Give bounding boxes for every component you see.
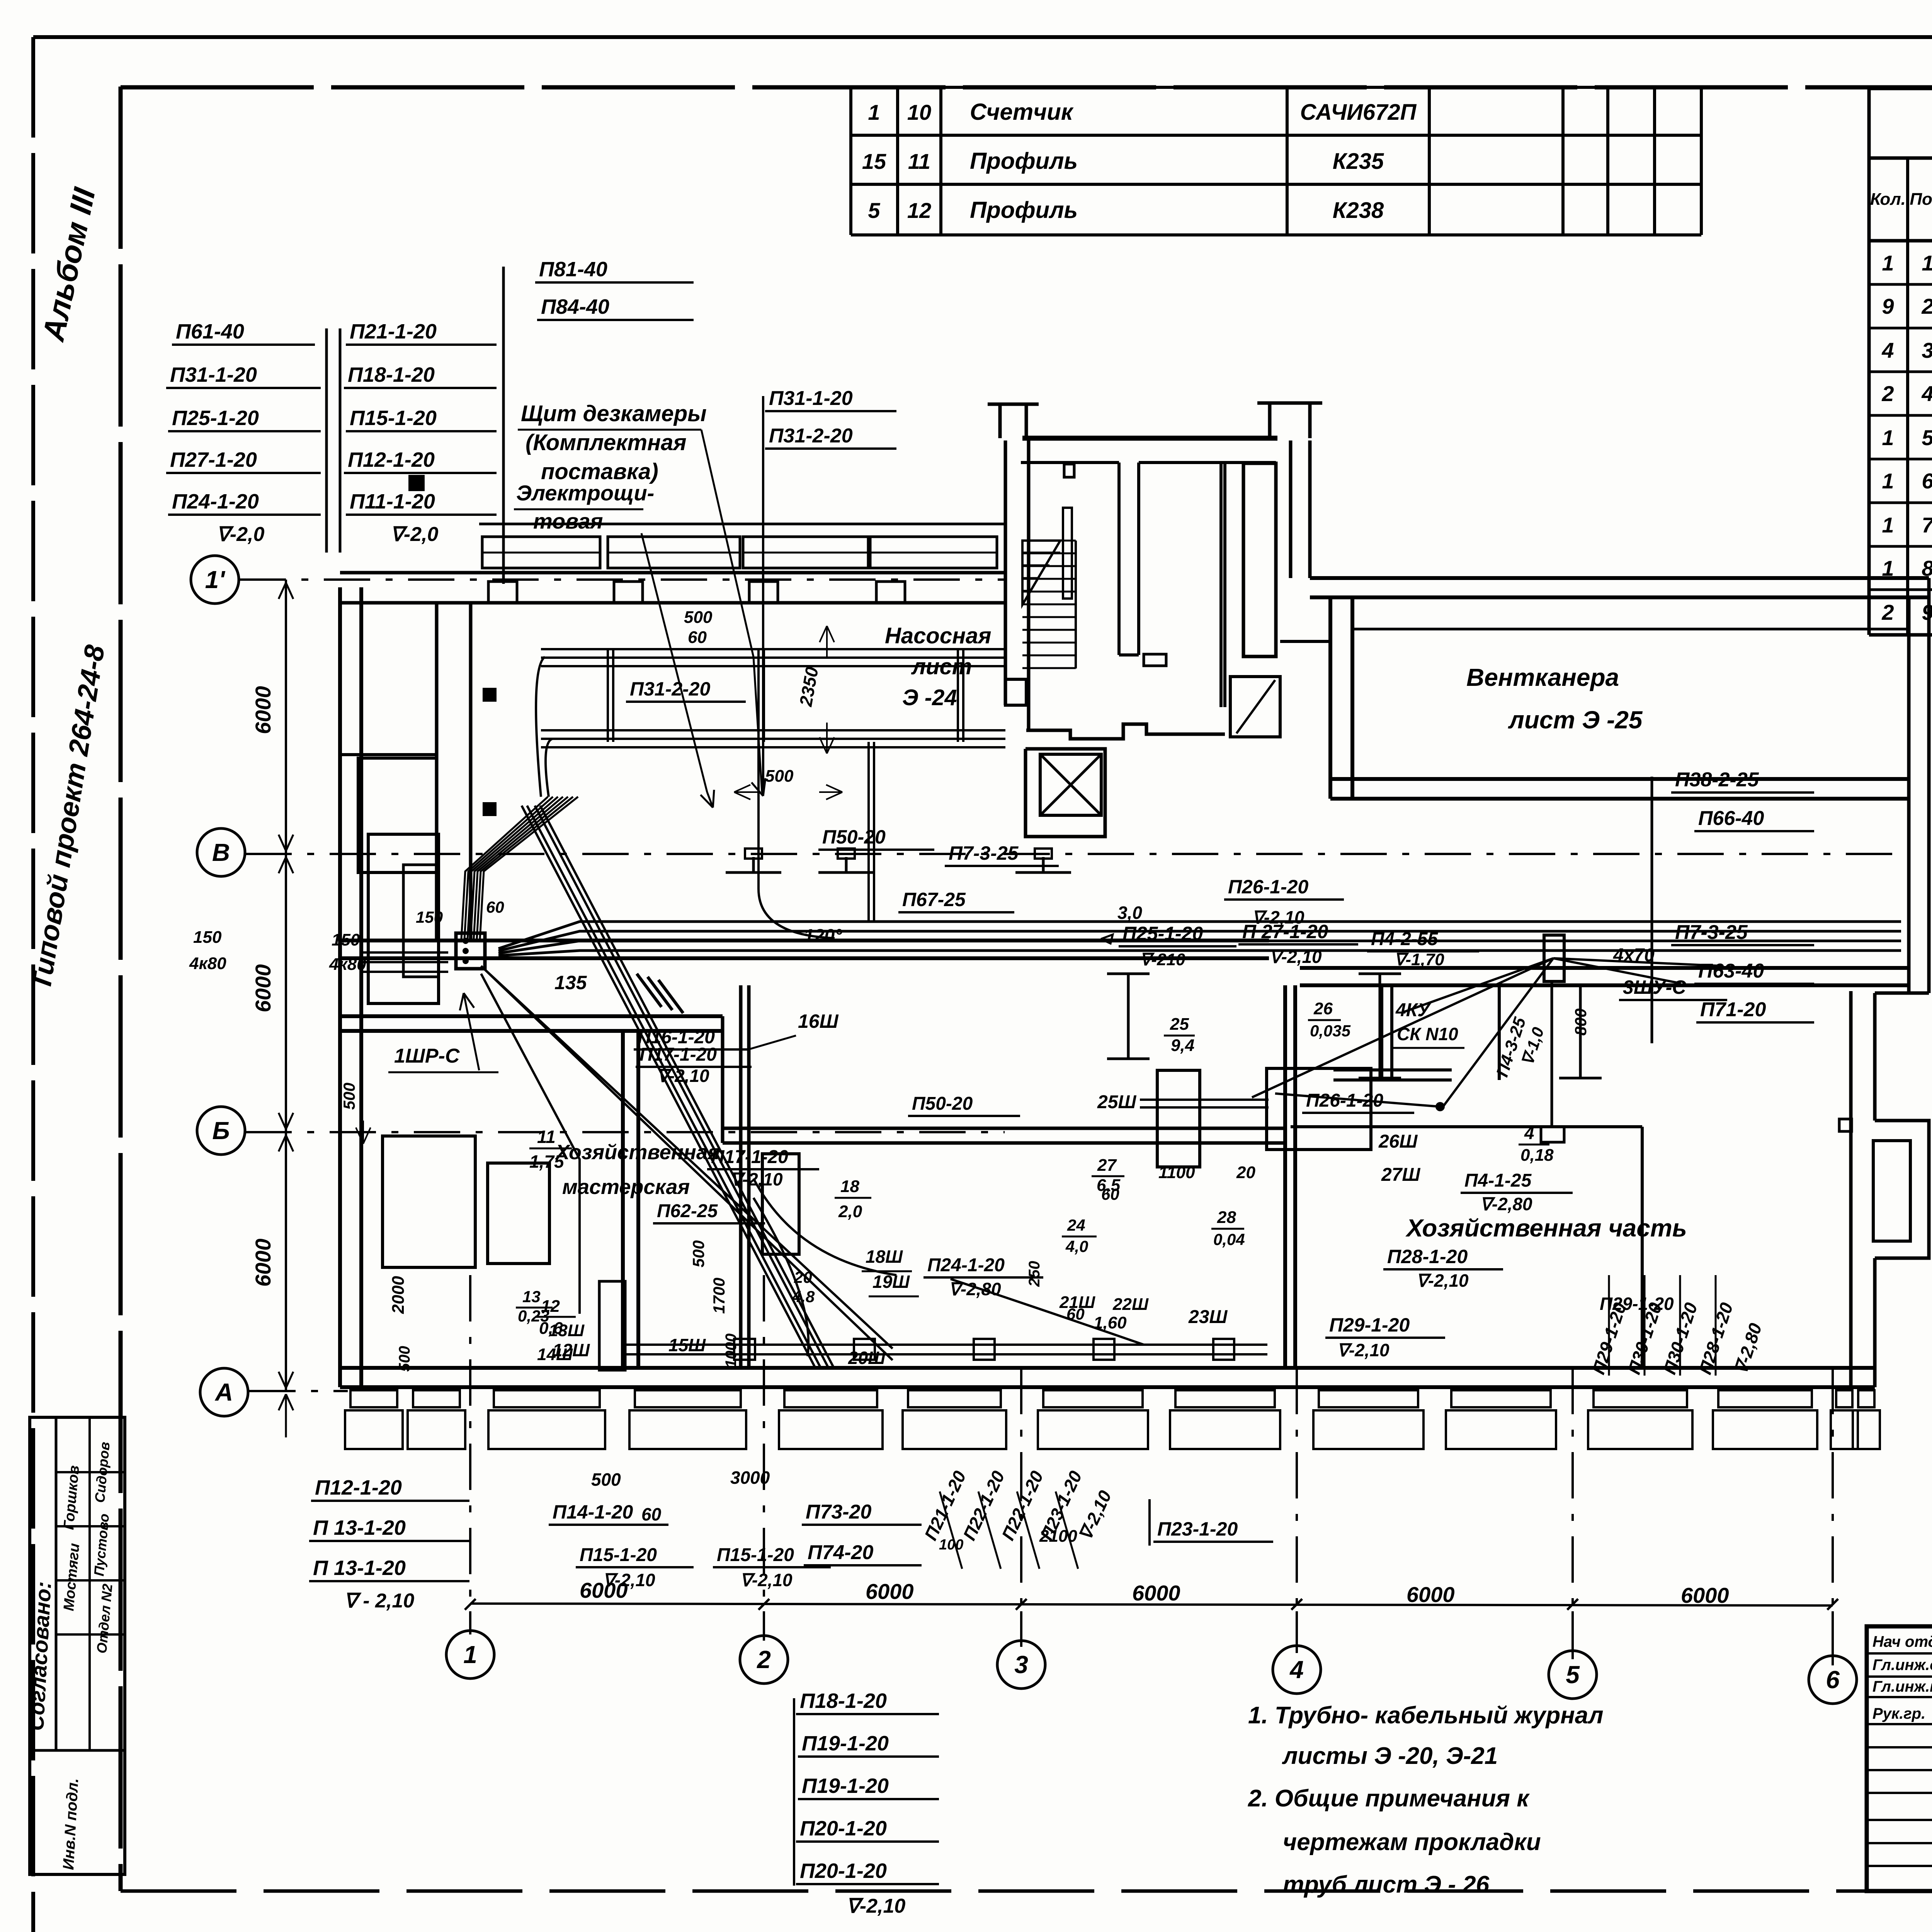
svg-text:Счетчик: Счетчик	[970, 99, 1074, 125]
svg-text:28: 28	[1217, 1208, 1236, 1227]
svg-text:60: 60	[1101, 1185, 1119, 1203]
svg-text:мастерская: мастерская	[562, 1175, 690, 1199]
svg-text:1: 1	[1882, 469, 1894, 493]
svg-text:Нач отд: Нач отд	[1872, 1633, 1932, 1650]
svg-text:1: 1	[463, 1641, 477, 1668]
svg-text:∇-210: ∇-210	[1140, 950, 1185, 969]
svg-text:П31-2-20: П31-2-20	[769, 425, 853, 447]
svg-text:1,60: 1,60	[1094, 1313, 1127, 1332]
svg-text:4x70: 4x70	[1613, 945, 1655, 966]
svg-text:СК N10: СК N10	[1397, 1024, 1458, 1044]
svg-text:60: 60	[486, 898, 504, 916]
svg-text:П24-1-20: П24-1-20	[172, 490, 259, 513]
svg-text:5: 5	[1566, 1661, 1580, 1689]
svg-text:150: 150	[416, 908, 443, 926]
svg-text:26Ш: 26Ш	[1378, 1131, 1418, 1152]
svg-text:16Ш: 16Ш	[798, 1010, 839, 1032]
svg-text:П15-1-20: П15-1-20	[717, 1545, 794, 1565]
svg-text:П4-1-25: П4-1-25	[1464, 1170, 1532, 1191]
svg-text:П26-1-20: П26-1-20	[1306, 1090, 1383, 1111]
svg-text:Гл.инж.пр.: Гл.инж.пр.	[1872, 1678, 1932, 1695]
svg-text:П18-1-20: П18-1-20	[348, 363, 435, 386]
svg-text:4к80: 4к80	[329, 955, 366, 974]
svg-text:4: 4	[1921, 381, 1932, 406]
svg-text:0,23: 0,23	[518, 1307, 549, 1325]
svg-text:П25-1-20: П25-1-20	[172, 406, 259, 430]
svg-text:листы Э -20, Э-21: листы Э -20, Э-21	[1282, 1743, 1498, 1769]
svg-text:П11-1-20: П11-1-20	[350, 490, 435, 513]
svg-text:500: 500	[765, 767, 794, 786]
svg-text:1100: 1100	[1158, 1163, 1195, 1182]
svg-text:П 13-1-20: П 13-1-20	[313, 1516, 406, 1539]
svg-text:2,0: 2,0	[838, 1202, 862, 1221]
svg-text:20: 20	[794, 1268, 812, 1286]
svg-text:П63-40: П63-40	[1698, 960, 1764, 982]
svg-text:∇-2,80: ∇-2,80	[949, 1279, 1001, 1299]
svg-text:∇-2,10: ∇-2,10	[846, 1895, 905, 1917]
svg-text:150: 150	[193, 928, 222, 947]
svg-text:24: 24	[1067, 1216, 1085, 1234]
svg-text:1000: 1000	[723, 1333, 740, 1368]
svg-text:чертежам прокладки: чертежам прокладки	[1283, 1829, 1541, 1855]
svg-text:А: А	[214, 1378, 233, 1406]
svg-text:25: 25	[1170, 1015, 1189, 1034]
svg-text:К238: К238	[1333, 198, 1384, 223]
svg-text:Профиль: Профиль	[970, 197, 1078, 223]
svg-text:П19-1-20: П19-1-20	[802, 1774, 889, 1798]
svg-text:∇-1,70: ∇-1,70	[1394, 950, 1444, 969]
svg-text:П23-1-20: П23-1-20	[1157, 1518, 1238, 1540]
svg-text:П27-1-20: П27-1-20	[170, 448, 257, 471]
svg-text:∇-2,10: ∇-2,10	[740, 1570, 793, 1590]
svg-text:4: 4	[1881, 338, 1894, 362]
svg-text:лист: лист	[911, 654, 972, 679]
svg-text:П29-1-20: П29-1-20	[1600, 1294, 1674, 1314]
svg-text:Гл.инж.отд: Гл.инж.отд	[1872, 1656, 1932, 1673]
svg-text:13Ш: 13Ш	[549, 1321, 585, 1340]
svg-text:К235: К235	[1333, 149, 1384, 174]
svg-text:П62-25: П62-25	[657, 1201, 718, 1221]
svg-text:1ШР-С: 1ШР-С	[394, 1045, 460, 1067]
svg-text:21Ш: 21Ш	[1059, 1293, 1095, 1312]
svg-text:П15-1-20: П15-1-20	[580, 1545, 657, 1565]
svg-text:150: 150	[332, 930, 360, 949]
svg-text:П24-1-20: П24-1-20	[927, 1255, 1005, 1276]
svg-text:∇-2,10: ∇-2,10	[603, 1570, 655, 1590]
svg-text:лист Э -25: лист Э -25	[1508, 706, 1643, 734]
svg-text:6000: 6000	[1132, 1581, 1180, 1605]
svg-text:П20-1-20: П20-1-20	[800, 1817, 887, 1840]
svg-text:1: 1	[1882, 425, 1894, 450]
svg-text:6: 6	[1826, 1666, 1840, 1694]
svg-text:П31-1-20: П31-1-20	[769, 387, 853, 410]
svg-text:9: 9	[1882, 294, 1894, 318]
svg-text:60: 60	[641, 1504, 662, 1524]
svg-text:П74-20: П74-20	[808, 1541, 873, 1564]
svg-text:4к80: 4к80	[189, 954, 226, 973]
svg-text:500: 500	[340, 1083, 358, 1110]
svg-text:В: В	[212, 838, 230, 866]
svg-text:П29-1-20: П29-1-20	[1329, 1314, 1410, 1336]
svg-text:САЧИ672П: САЧИ672П	[1300, 100, 1417, 125]
svg-text:100: 100	[939, 1537, 963, 1553]
svg-text:∇ - 2,10: ∇ - 2,10	[344, 1590, 414, 1612]
svg-text:П73-20: П73-20	[806, 1501, 871, 1523]
svg-text:135: 135	[554, 972, 587, 993]
svg-text:2: 2	[1921, 294, 1932, 318]
svg-text:∇-2,10: ∇-2,10	[657, 1066, 709, 1086]
svg-text:П 13-1-20: П 13-1-20	[313, 1556, 406, 1580]
svg-text:товая: товая	[533, 509, 603, 533]
svg-text:П7-3-25: П7-3-25	[1675, 921, 1748, 944]
svg-text:П21-1-20: П21-1-20	[350, 320, 437, 343]
svg-text:1: 1	[1922, 251, 1932, 275]
svg-text:120°: 120°	[804, 926, 842, 946]
svg-text:∇-2,10: ∇-2,10	[1269, 947, 1322, 967]
svg-text:1700: 1700	[710, 1278, 728, 1314]
svg-text:0,035: 0,035	[1310, 1022, 1351, 1040]
svg-text:Хозяйственная часть: Хозяйственная часть	[1405, 1214, 1687, 1242]
svg-text:6000: 6000	[1406, 1582, 1455, 1607]
svg-text:П31-2-20: П31-2-20	[630, 678, 710, 700]
svg-text:18: 18	[840, 1177, 859, 1196]
svg-text:13: 13	[522, 1287, 541, 1306]
svg-text:3,0: 3,0	[1117, 903, 1142, 923]
svg-text:П4-2-55: П4-2-55	[1371, 929, 1439, 949]
svg-text:3: 3	[1014, 1651, 1028, 1679]
svg-text:1: 1	[1882, 251, 1894, 275]
svg-text:4,8: 4,8	[792, 1287, 815, 1306]
svg-text:23Ш: 23Ш	[1188, 1307, 1228, 1327]
svg-text:Электрощи-: Электрощи-	[516, 481, 654, 505]
svg-text:П25-1-20: П25-1-20	[1122, 923, 1203, 944]
svg-text:15: 15	[862, 149, 886, 173]
svg-text:П19-1-20: П19-1-20	[802, 1732, 889, 1755]
svg-text:4: 4	[1524, 1123, 1534, 1143]
svg-text:20Ш: 20Ш	[848, 1348, 886, 1368]
svg-text:18Ш: 18Ш	[866, 1247, 903, 1267]
svg-text:6: 6	[1922, 469, 1932, 493]
svg-text:0,04: 0,04	[1213, 1230, 1245, 1248]
svg-text:П66-40: П66-40	[1698, 807, 1764, 830]
svg-text:труб лист Э - 26: труб лист Э - 26	[1283, 1871, 1490, 1898]
svg-text:⊲: ⊲	[1097, 929, 1114, 949]
svg-text:4: 4	[1289, 1656, 1304, 1684]
svg-text:П17-1-20: П17-1-20	[639, 1044, 717, 1065]
svg-text:6000: 6000	[866, 1579, 914, 1604]
svg-text:П12-1-20: П12-1-20	[348, 448, 435, 471]
svg-text:П28-1-20: П28-1-20	[1387, 1246, 1468, 1267]
svg-text:2. Общие примечания к: 2. Общие примечания к	[1248, 1785, 1530, 1812]
svg-text:800: 800	[1571, 1009, 1590, 1036]
svg-text:П 27-1-20: П 27-1-20	[1242, 921, 1328, 942]
svg-text:П18-1-20: П18-1-20	[800, 1689, 887, 1713]
svg-text:П12-1-20: П12-1-20	[315, 1476, 402, 1499]
svg-text:Рук.гр.: Рук.гр.	[1872, 1705, 1925, 1722]
svg-text:6000: 6000	[1681, 1583, 1729, 1607]
svg-text:Э -24: Э -24	[902, 685, 957, 710]
svg-text:П38-2-25: П38-2-25	[1675, 769, 1759, 791]
svg-text:500: 500	[689, 1240, 707, 1267]
svg-text:4,0: 4,0	[1065, 1237, 1088, 1255]
svg-text:П17-1-20: П17-1-20	[711, 1147, 788, 1167]
svg-text:6000: 6000	[251, 964, 275, 1012]
svg-text:2: 2	[1881, 381, 1894, 406]
svg-text:9,4: 9,4	[1171, 1036, 1194, 1055]
svg-text:27Ш: 27Ш	[1381, 1165, 1420, 1185]
svg-text:(Комплектная: (Комплектная	[526, 430, 687, 455]
svg-text:1: 1	[868, 100, 880, 124]
svg-text:3ШУ-С: 3ШУ-С	[1623, 976, 1686, 998]
svg-text:5: 5	[1922, 425, 1932, 450]
svg-text:20: 20	[1236, 1163, 1255, 1182]
svg-text:П50-20: П50-20	[822, 826, 886, 848]
svg-text:22Ш: 22Ш	[1112, 1295, 1149, 1314]
svg-text:1': 1'	[205, 566, 226, 594]
svg-text:27: 27	[1097, 1156, 1117, 1175]
svg-text:500: 500	[396, 1346, 413, 1372]
svg-text:Б: Б	[212, 1117, 230, 1145]
svg-text:11: 11	[908, 149, 930, 173]
svg-text:∇-2,0: ∇-2,0	[390, 523, 438, 546]
svg-text:3: 3	[1922, 338, 1932, 362]
svg-text:1: 1	[1882, 513, 1894, 537]
svg-text:2000: 2000	[389, 1276, 408, 1314]
svg-text:500: 500	[591, 1469, 621, 1490]
svg-text:1. Трубно- кабельный журнал: 1. Трубно- кабельный журнал	[1248, 1702, 1604, 1729]
svg-text:0,18: 0,18	[1520, 1146, 1554, 1165]
svg-text:Хозяйственная: Хозяйственная	[554, 1141, 720, 1164]
svg-text:5: 5	[868, 198, 880, 223]
svg-text:7: 7	[1922, 513, 1932, 537]
svg-text:2: 2	[1881, 600, 1894, 624]
svg-text:6000: 6000	[251, 1238, 275, 1287]
svg-text:15Ш: 15Ш	[668, 1335, 706, 1355]
svg-text:∇-2,10: ∇-2,10	[1337, 1340, 1389, 1360]
svg-text:Насосная: Насосная	[885, 623, 992, 648]
svg-text:П50-20: П50-20	[912, 1094, 973, 1114]
svg-text:∇-2,80: ∇-2,80	[1480, 1194, 1532, 1214]
svg-text:П31-1-20: П31-1-20	[170, 363, 257, 386]
svg-text:250: 250	[1026, 1261, 1043, 1287]
svg-text:4КУ: 4КУ	[1395, 1000, 1431, 1020]
svg-text:6000: 6000	[251, 686, 275, 734]
svg-text:П14-1-20: П14-1-20	[553, 1501, 633, 1523]
svg-text:500: 500	[684, 608, 713, 627]
svg-text:П7-3-25: П7-3-25	[949, 842, 1019, 864]
svg-text:Поз.: Поз.	[1910, 190, 1932, 209]
svg-text:П15-1-20: П15-1-20	[350, 406, 437, 430]
svg-text:П84-40: П84-40	[541, 295, 609, 318]
svg-text:∇-2,0: ∇-2,0	[216, 523, 264, 546]
svg-text:Кол.: Кол.	[1870, 190, 1906, 209]
svg-text:Щит дезкамеры: Щит дезкамеры	[521, 401, 707, 426]
svg-text:26: 26	[1313, 999, 1333, 1018]
svg-text:П26-1-20: П26-1-20	[1228, 876, 1308, 898]
svg-text:2: 2	[757, 1646, 771, 1673]
svg-text:10: 10	[907, 100, 931, 124]
svg-text:Вентканера: Вентканера	[1466, 663, 1619, 691]
svg-text:∇-2,10: ∇-2,10	[730, 1169, 783, 1189]
svg-text:∇-2,10: ∇-2,10	[1416, 1270, 1469, 1291]
svg-text:14Ш: 14Ш	[537, 1345, 573, 1364]
svg-text:П20-1-20: П20-1-20	[800, 1859, 887, 1883]
svg-text:П81-40: П81-40	[539, 258, 607, 281]
svg-text:11: 11	[537, 1127, 556, 1147]
svg-text:П71-20: П71-20	[1700, 998, 1766, 1021]
svg-text:П67-25: П67-25	[902, 889, 966, 910]
svg-text:60: 60	[688, 628, 707, 647]
svg-text:12: 12	[907, 198, 931, 223]
svg-text:3000: 3000	[730, 1468, 770, 1488]
svg-text:19Ш: 19Ш	[872, 1272, 910, 1292]
svg-text:25Ш: 25Ш	[1097, 1092, 1136, 1112]
svg-text:Профиль: Профиль	[970, 148, 1078, 174]
svg-text:П61-40: П61-40	[176, 320, 244, 343]
